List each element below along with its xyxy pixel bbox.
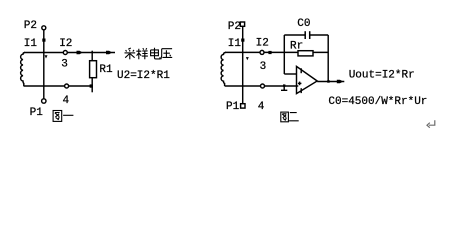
svg-text:P1: P1 [30, 107, 44, 119]
svg-text:Uout=I2*Rr: Uout=I2*Rr [349, 69, 415, 81]
svg-text:I1: I1 [24, 38, 38, 50]
svg-text:P2: P2 [228, 21, 241, 33]
svg-text:P1: P1 [226, 101, 240, 113]
svg-text:3: 3 [61, 58, 68, 70]
svg-text:R1: R1 [99, 64, 113, 76]
svg-text:I2: I2 [59, 38, 72, 50]
svg-text:P2: P2 [24, 20, 37, 32]
svg-text:I2: I2 [256, 37, 269, 49]
svg-text:4: 4 [258, 101, 265, 113]
svg-text:C0: C0 [297, 18, 310, 30]
svg-text:4: 4 [63, 95, 70, 107]
svg-text:3: 3 [260, 61, 267, 73]
svg-text:U2=I2*R1: U2=I2*R1 [117, 70, 170, 82]
svg-text:Rr: Rr [290, 40, 303, 52]
svg-text:C0=4500/W*Rr*Ur: C0=4500/W*Rr*Ur [328, 96, 427, 108]
svg-text:I1: I1 [228, 38, 242, 50]
